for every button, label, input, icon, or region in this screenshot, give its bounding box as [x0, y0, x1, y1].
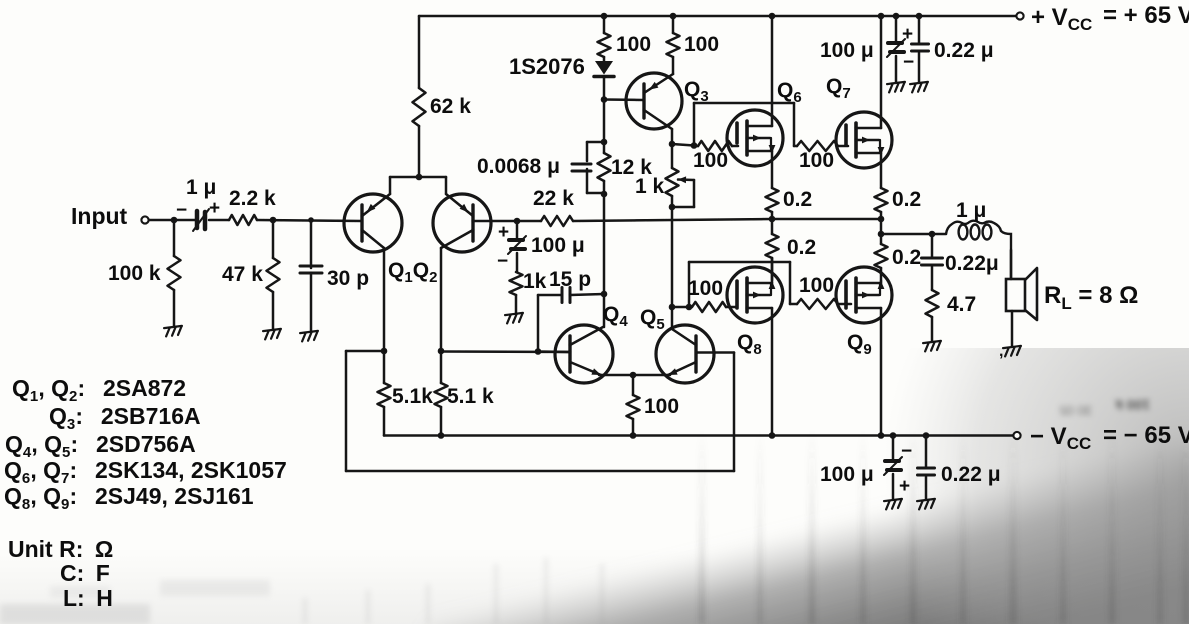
capacitor 30p — [310, 220, 313, 268]
svg-text:100: 100 — [799, 149, 834, 172]
svg-text:1 μ: 1 μ — [956, 199, 986, 222]
terminal +Vcc — [1016, 12, 1023, 19]
svg-text:100: 100 — [693, 149, 728, 172]
speaker RL — [1006, 279, 1025, 311]
ground 1k — [505, 313, 524, 324]
svg-text:22 k: 22 k — [533, 187, 574, 210]
svg-text:15 p: 15 p — [549, 268, 591, 291]
svg-text:100 k: 100 k — [1115, 397, 1150, 413]
ground 47k — [263, 329, 282, 340]
wire to Q5 base — [696, 351, 734, 354]
capacitor 0.22u zobel — [931, 234, 934, 258]
wire Q4 Q5 emitters — [599, 374, 670, 377]
wire Q4 base — [538, 350, 570, 353]
node 0.22u bottom rail — [923, 432, 930, 439]
node 12k top — [601, 139, 608, 146]
node top rail / 0.22u — [916, 13, 923, 20]
node 12k bottom — [601, 191, 608, 198]
wire 12k bottom down to Q4 collector — [603, 194, 606, 327]
wire inductor to speaker — [1010, 250, 1013, 279]
svg-text:+: + — [209, 198, 220, 219]
svg-text:0.2: 0.2 — [892, 188, 921, 211]
svg-text:0.22 μ: 0.22 μ — [941, 463, 1001, 486]
svg-text:100: 100 — [799, 274, 834, 297]
ground 100u top — [887, 82, 906, 93]
diode 1S2076 — [595, 61, 613, 75]
node Q2 collector — [438, 348, 445, 355]
capacitor 15p — [538, 294, 562, 297]
svg-text:100 μ: 100 μ — [820, 39, 874, 62]
wire input — [149, 219, 196, 222]
resistor 100 Q7 gate — [797, 141, 838, 151]
node output Q6 — [769, 216, 776, 223]
resistor 100 right top — [667, 33, 680, 57]
resistor 4.7 — [926, 290, 939, 317]
transistor Q4 — [555, 325, 613, 383]
capacitor C 1u input — [195, 211, 200, 228]
capacitor 0.0068u — [587, 141, 604, 144]
resistor 100 Q8 gate — [692, 302, 726, 312]
wire Q3 collector — [671, 129, 674, 145]
transistor Q5 — [656, 325, 714, 383]
transistor Q3 — [626, 73, 682, 129]
node lower gate drive — [669, 304, 676, 311]
wire Q3 base — [604, 98, 644, 101]
wire Q7 drain up — [880, 16, 883, 128]
node 100 emitters bottom rail — [630, 432, 637, 439]
svg-text:+: + — [902, 24, 913, 45]
svg-text:0.22μ: 0.22μ — [945, 252, 999, 275]
transistor Q7 mosfet — [836, 112, 892, 168]
svg-text:L: H: L: H — [63, 585, 113, 611]
wire gate over to Q9 — [688, 262, 691, 307]
wire pot bottom to Q5 collector — [671, 207, 674, 327]
wire Q3 emitter to 100 — [672, 57, 675, 74]
wire 15p branch up — [537, 295, 540, 352]
capacitor 100u feedback — [516, 221, 519, 239]
node top rail / 100-ohm right — [670, 13, 677, 20]
svg-text:= + 65 V: = + 65 V — [1103, 2, 1189, 29]
svg-text:RL = 8 Ω: RL = 8 Ω — [1044, 282, 1138, 313]
node Q8 drain rail — [769, 432, 776, 439]
paper shading bottom-right (decorative) — [420, 440, 1189, 624]
node input/100k — [171, 217, 178, 224]
svg-text:47 k: 47 k — [222, 263, 263, 286]
capacitor 0.22u top — [918, 16, 921, 44]
svg-text:4.7: 4.7 — [947, 293, 976, 316]
resistor 5.1k left — [383, 351, 386, 383]
svg-text:30 p: 30 p — [327, 267, 369, 290]
wire +Vcc top rail — [419, 15, 1016, 18]
resistor 100 left top — [603, 16, 606, 33]
wire output rail — [772, 218, 881, 221]
svg-text:,: , — [999, 343, 1003, 360]
node 15p branch — [535, 348, 542, 355]
wire 2.2k to Q1 base — [257, 220, 362, 221]
ground 4.7 — [923, 341, 942, 352]
wire feedback to output — [573, 219, 772, 221]
node 1k pot bottom — [669, 204, 676, 211]
wire Q6 source down — [771, 151, 774, 188]
svg-text:+: + — [498, 222, 509, 243]
wire gate node up-over to Q7 — [693, 103, 696, 146]
resistor 47k — [272, 220, 275, 258]
terminal input — [141, 216, 148, 223]
resistor 62k — [413, 88, 426, 126]
svg-text:Q8 , Q9 : 2SJ49, 2SJ161: Q8 , Q9 : 2SJ49, 2SJ161 — [4, 483, 254, 513]
svg-text:5.1k: 5.1k — [392, 385, 433, 408]
transistor Q6 mosfet — [727, 110, 783, 166]
resistor 0.2 Q8 — [771, 219, 774, 234]
wire Q7 source down — [880, 153, 883, 188]
svg-text:100: 100 — [616, 33, 651, 56]
wire left loop vertical — [345, 351, 348, 471]
svg-text:100 k: 100 k — [108, 262, 161, 285]
node top rail / 100-ohm left — [601, 13, 608, 20]
wire Q1 collector down — [383, 248, 386, 351]
node 15p right — [601, 291, 608, 298]
resistor 12k — [598, 153, 611, 181]
wire Q6 drain up — [771, 16, 774, 126]
svg-text:Q1 , Q2 : 2SA872: Q1 , Q2 : 2SA872 — [12, 375, 186, 405]
capacitor 100u bottom — [892, 436, 895, 461]
ground 100k — [164, 326, 183, 337]
node top rail / Q7 drain — [878, 13, 885, 20]
svg-text:C: F: C: F — [60, 560, 110, 586]
svg-text:−: − — [903, 52, 914, 73]
node output branch — [878, 231, 885, 238]
wire -Vcc bottom rail — [384, 434, 1013, 437]
node zobel — [929, 231, 936, 238]
svg-text:= − 65 V: = − 65 V — [1103, 422, 1189, 449]
wire output to inductor — [881, 233, 946, 236]
terminal -Vcc — [1013, 432, 1020, 439]
wire 62k branch — [418, 16, 421, 88]
wire Q2 emitter up — [445, 177, 448, 194]
inductor L 1u — [946, 221, 1011, 279]
wire emitter bar Q1-Q2 — [390, 176, 446, 179]
ground 0.22u top — [910, 82, 929, 93]
node Q2 base 22k — [514, 218, 521, 225]
node diode Q3 base — [601, 96, 608, 103]
svg-text:0.2: 0.2 — [783, 188, 812, 211]
svg-text:−: − — [176, 200, 187, 221]
svg-text:0.22 μ: 0.22 μ — [934, 39, 994, 62]
node top rail / Q6 drain — [769, 13, 776, 20]
wire Q2 collector down — [440, 248, 443, 351]
svg-text:100: 100 — [684, 33, 719, 56]
resistor 100k — [173, 220, 176, 256]
svg-text:0.2: 0.2 — [892, 246, 921, 269]
transistor Q9 mosfet — [836, 267, 892, 323]
svg-text:1S2076: 1S2076 — [509, 54, 585, 79]
svg-text:62 k: 62 k — [430, 95, 471, 118]
svg-text:0.2: 0.2 — [787, 236, 816, 259]
transistor Q2 — [433, 194, 491, 252]
resistor 100 Q6 gate — [698, 141, 732, 151]
svg-text:1 k: 1 k — [635, 175, 665, 198]
wire Q1 emitter up — [389, 177, 392, 194]
wire lower gate node — [672, 306, 689, 309]
node emitters 62k — [416, 174, 423, 181]
potentiometer 1k — [671, 144, 674, 168]
wire 1u to 2.2k — [209, 219, 229, 222]
resistor 0.2 Q7 — [875, 188, 888, 212]
svg-text:0.0068 μ: 0.0068 μ — [477, 155, 560, 178]
node emitters 100 — [630, 372, 637, 379]
node top rail / 100u — [893, 13, 900, 20]
resistor 100 emitters — [632, 375, 635, 395]
svg-text:100 μ: 100 μ — [531, 234, 585, 257]
resistor 0.2 Q6 — [766, 188, 779, 212]
wire Q8 source up — [771, 258, 774, 283]
node lower gate drive right — [686, 304, 693, 311]
wire Q8 drain down — [771, 308, 774, 436]
wire Q1 collector stub left — [346, 350, 384, 353]
svg-text:−: − — [497, 251, 508, 272]
wire diode to 12k — [603, 100, 606, 154]
resistor 2.2k — [229, 215, 257, 225]
node 30p top — [308, 217, 314, 223]
svg-text:+: + — [899, 476, 910, 497]
wire Q3 collector to gate node — [672, 144, 694, 146]
wire Q2 base to 22k node — [473, 220, 517, 223]
resistor 0.2 Q9 — [880, 234, 883, 244]
wire loop up to Q5 base — [733, 353, 736, 472]
svg-text:5.1 k: 5.1 k — [447, 385, 494, 408]
svg-text:100: 100 — [688, 277, 723, 300]
wire output down — [880, 219, 883, 234]
node 100u bottom rail — [890, 432, 897, 439]
wire speaker to ground — [1011, 311, 1014, 346]
svg-text:100 μ: 100 μ — [820, 463, 874, 486]
node upper gate drive — [691, 142, 698, 149]
wire Q2 collector to Q4 base — [441, 350, 570, 353]
capacitor 0.22u bottom — [925, 436, 928, 469]
resistor 1k feedback — [510, 272, 523, 295]
transistor Q1 — [344, 194, 402, 252]
svg-text:−: − — [901, 441, 912, 462]
svg-text:1k: 1k — [523, 270, 547, 293]
ground 30p — [300, 331, 319, 342]
node Q9 drain rail — [878, 432, 885, 439]
node output Q7 — [878, 216, 885, 223]
transistor Q8 mosfet — [727, 267, 783, 323]
ground 0.22u bottom — [917, 499, 936, 510]
node 5.1k right bottom rail — [438, 432, 445, 439]
resistor 100 Q9 gate — [797, 299, 838, 309]
node 47k top — [270, 217, 277, 224]
resistor 22k — [517, 220, 541, 223]
svg-text:30 05: 30 05 — [1059, 403, 1092, 418]
node Q3 collector / 1k pot — [669, 141, 676, 148]
svg-text:100: 100 — [644, 395, 679, 418]
node Q1 collector — [381, 348, 388, 355]
capacitor 100u top — [895, 16, 898, 42]
wire Q9 drain down — [880, 308, 883, 436]
wire Q9 source up — [880, 281, 883, 283]
ground 100u bottom — [884, 499, 903, 510]
svg-text:2.2 k: 2.2 k — [229, 187, 276, 210]
svg-text:Input: Input — [71, 203, 128, 229]
ground speaker — [1003, 346, 1022, 357]
svg-text:Unit R: Ω: Unit R: Ω — [8, 536, 113, 562]
svg-text:1 μ: 1 μ — [186, 176, 216, 199]
wire loop bottom — [346, 470, 734, 473]
resistor 5.1k right — [440, 351, 443, 383]
